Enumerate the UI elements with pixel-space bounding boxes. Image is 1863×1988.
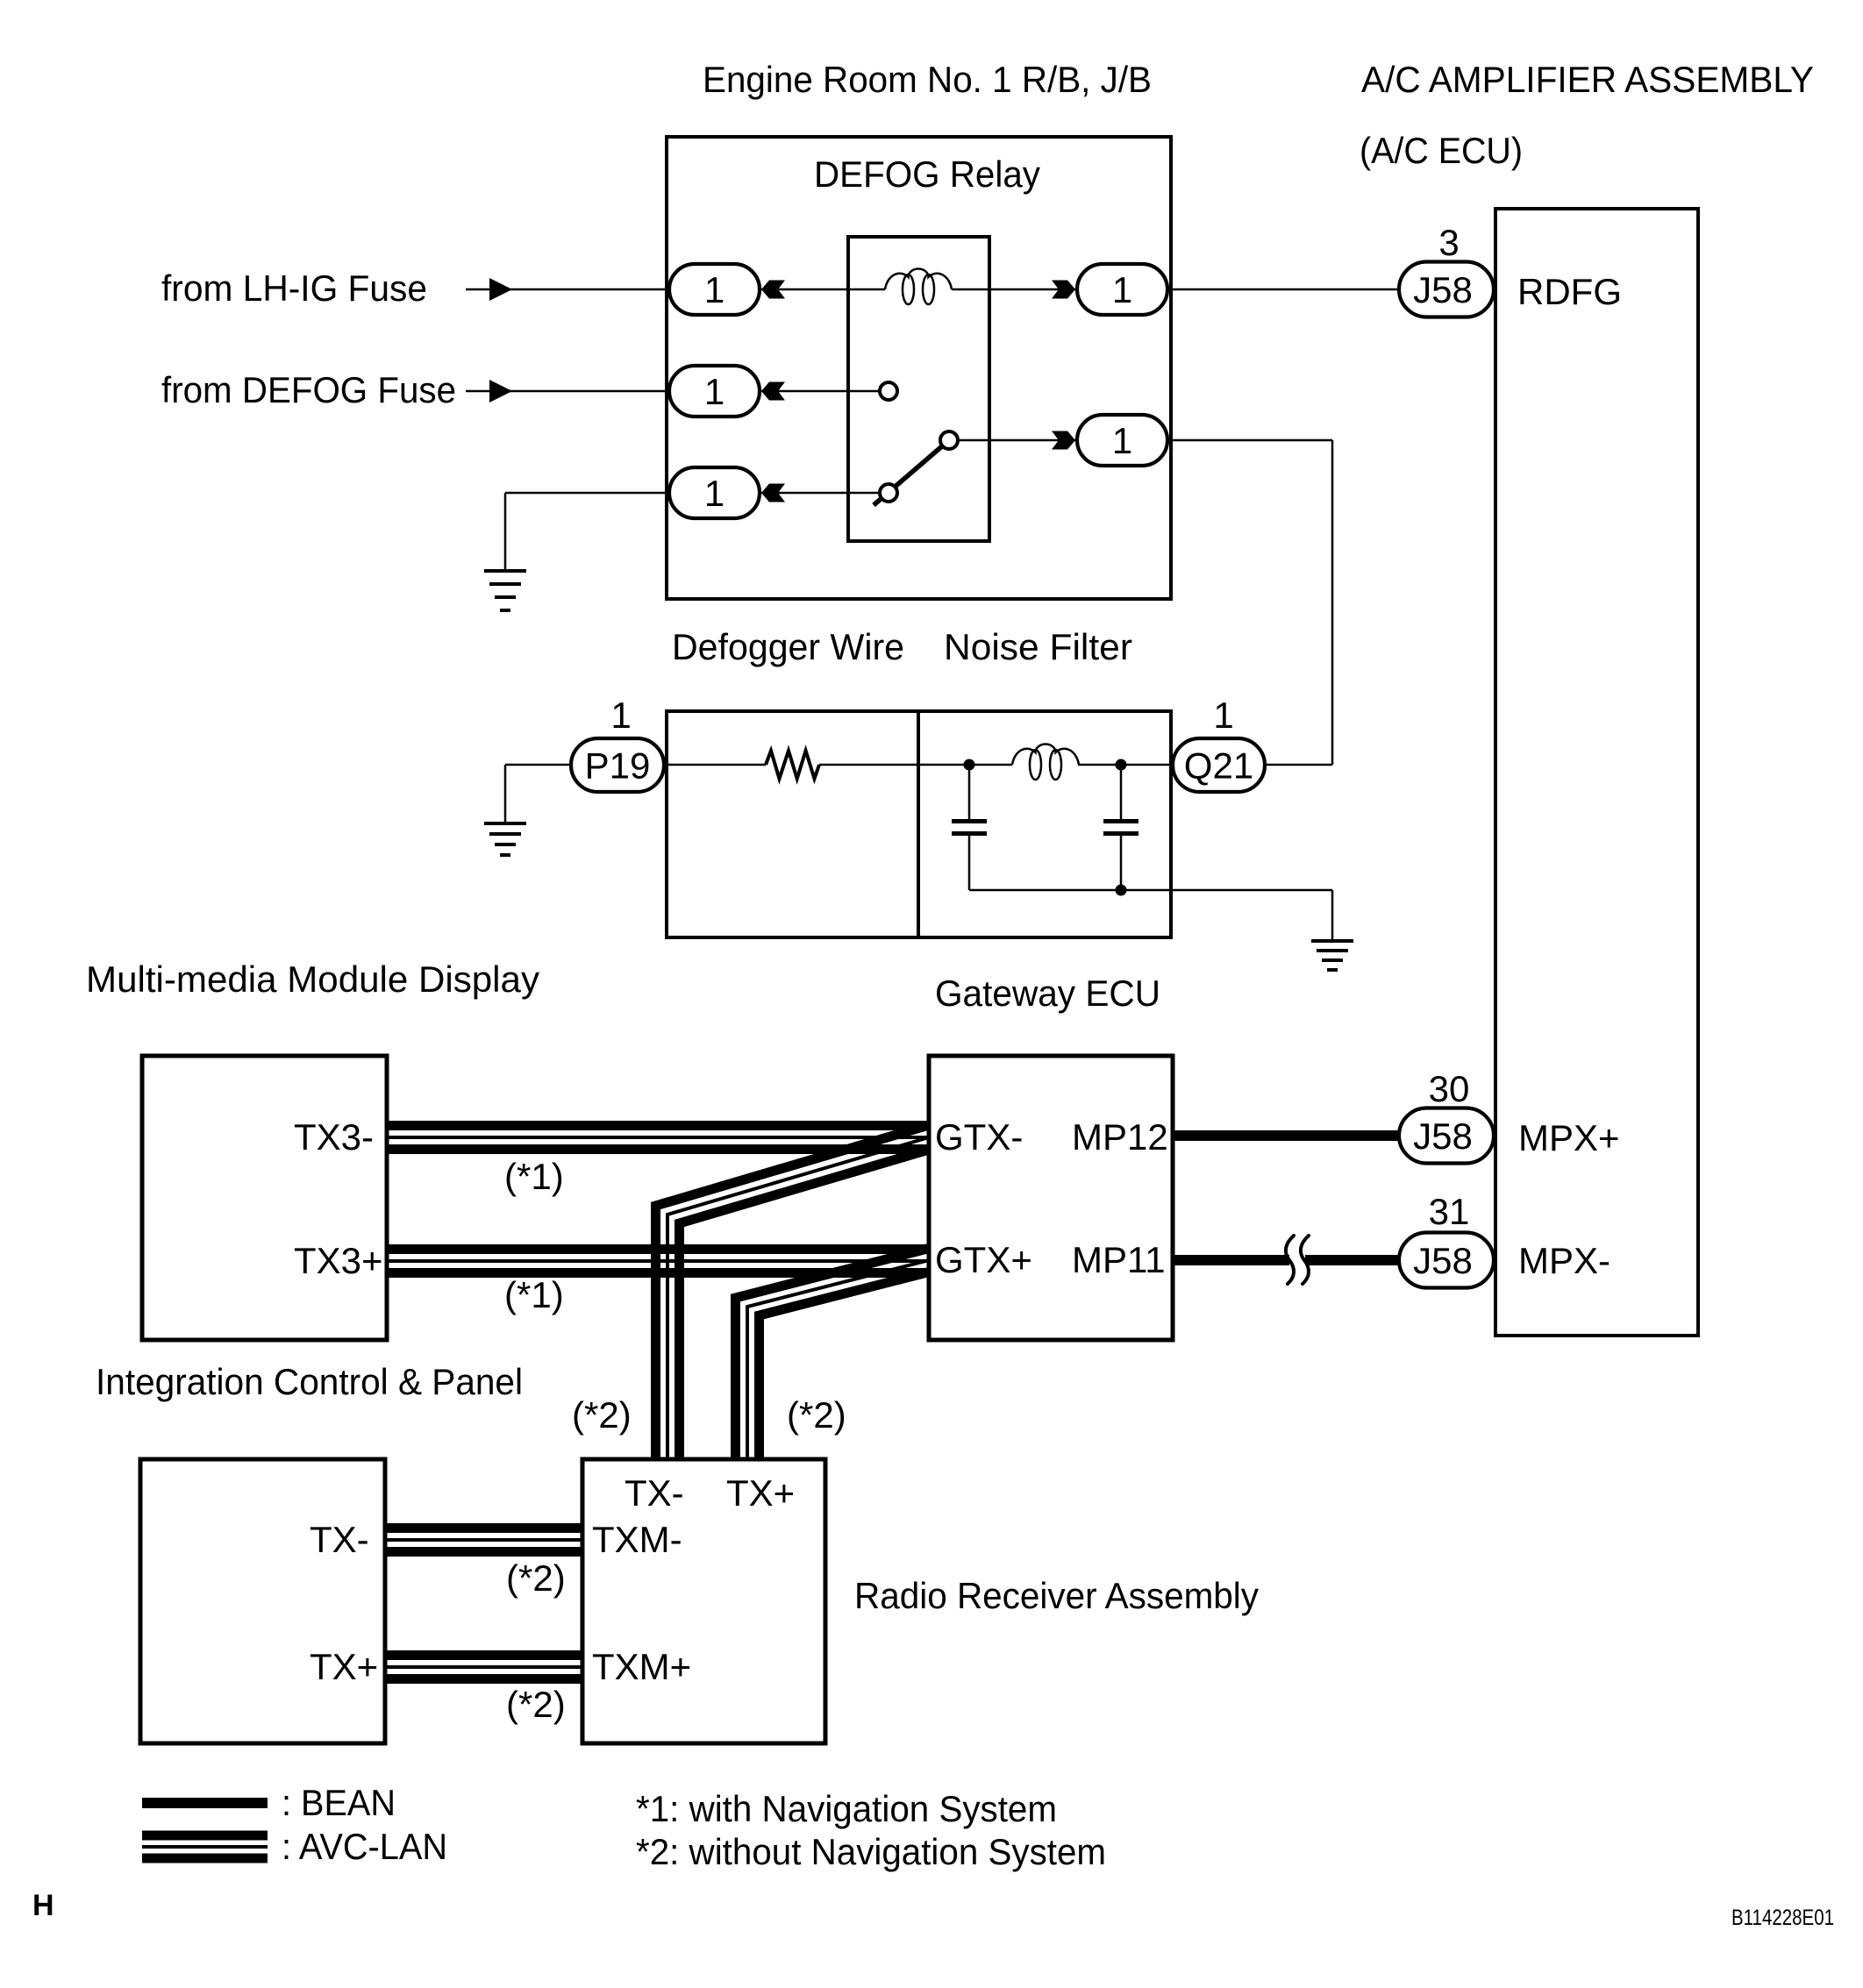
svg-text:31: 31 — [1429, 1191, 1470, 1232]
svg-text:(*2): (*2) — [787, 1394, 846, 1436]
svg-text:Q21: Q21 — [1184, 745, 1253, 787]
svg-text:MPX-: MPX- — [1518, 1240, 1610, 1281]
svg-text:1: 1 — [704, 473, 724, 514]
svg-text:TX-: TX- — [310, 1519, 369, 1560]
svg-text:TXM+: TXM+ — [592, 1646, 691, 1687]
svg-text:TXM-: TXM- — [592, 1519, 682, 1560]
svg-text:TX+: TX+ — [310, 1646, 378, 1687]
svg-text:DEFOG Relay: DEFOG Relay — [814, 153, 1040, 195]
svg-text:J58: J58 — [1413, 1240, 1473, 1281]
svg-text:*1: with Navigation System: *1: with Navigation System — [636, 1788, 1057, 1829]
svg-text:MP11: MP11 — [1072, 1239, 1166, 1280]
svg-text:Multi-media Module Display: Multi-media Module Display — [86, 958, 539, 1000]
svg-text:GTX-: GTX- — [935, 1116, 1023, 1158]
svg-text:Noise Filter: Noise Filter — [944, 626, 1132, 667]
svg-text:Engine Room No. 1 R/B, J/B: Engine Room No. 1 R/B, J/B — [703, 59, 1152, 100]
svg-text:GTX+: GTX+ — [935, 1239, 1032, 1280]
svg-text:: AVC-LAN: : AVC-LAN — [282, 1826, 447, 1867]
svg-text:TX+: TX+ — [726, 1472, 795, 1514]
svg-text:H: H — [32, 1889, 54, 1922]
svg-text:1: 1 — [1112, 420, 1132, 461]
svg-text:MPX+: MPX+ — [1518, 1117, 1620, 1158]
svg-text:(*1): (*1) — [504, 1156, 564, 1197]
svg-text:1: 1 — [704, 371, 724, 412]
svg-text:*2: without Navigation System: *2: without Navigation System — [636, 1831, 1106, 1872]
svg-text:30: 30 — [1429, 1068, 1470, 1109]
svg-text:Defogger Wire: Defogger Wire — [672, 626, 904, 667]
svg-text:from DEFOG Fuse: from DEFOG Fuse — [161, 369, 456, 410]
svg-text:from LH-IG Fuse: from LH-IG Fuse — [161, 267, 427, 309]
svg-text:3: 3 — [1438, 222, 1459, 263]
svg-text:P19: P19 — [585, 745, 651, 787]
svg-text:(*2): (*2) — [506, 1557, 566, 1599]
svg-text:(*1): (*1) — [504, 1274, 564, 1315]
svg-text:1: 1 — [704, 269, 724, 310]
svg-text:Gateway ECU: Gateway ECU — [935, 973, 1160, 1014]
svg-text:1: 1 — [1112, 269, 1132, 310]
svg-text:B114228E01: B114228E01 — [1731, 1906, 1834, 1930]
svg-text:(*2): (*2) — [506, 1684, 566, 1725]
svg-text:TX-: TX- — [625, 1472, 684, 1514]
svg-text:1: 1 — [610, 695, 631, 736]
svg-text:Integration Control & Panel: Integration Control & Panel — [96, 1361, 523, 1402]
svg-text:MP12: MP12 — [1072, 1116, 1168, 1158]
svg-text:(A/C ECU): (A/C ECU) — [1360, 130, 1523, 171]
svg-text:RDFG: RDFG — [1517, 271, 1622, 312]
svg-text:J58: J58 — [1413, 269, 1473, 310]
svg-text:TX3+: TX3+ — [294, 1240, 383, 1281]
svg-text:(*2): (*2) — [572, 1394, 632, 1436]
svg-text:TX3-: TX3- — [294, 1116, 374, 1158]
svg-text:J58: J58 — [1413, 1115, 1473, 1157]
svg-text:: BEAN: : BEAN — [282, 1782, 396, 1823]
svg-text:A/C AMPLIFIER ASSEMBLY: A/C AMPLIFIER ASSEMBLY — [1361, 59, 1814, 100]
svg-text:Radio Receiver Assembly: Radio Receiver Assembly — [854, 1575, 1259, 1616]
svg-text:1: 1 — [1213, 695, 1233, 736]
